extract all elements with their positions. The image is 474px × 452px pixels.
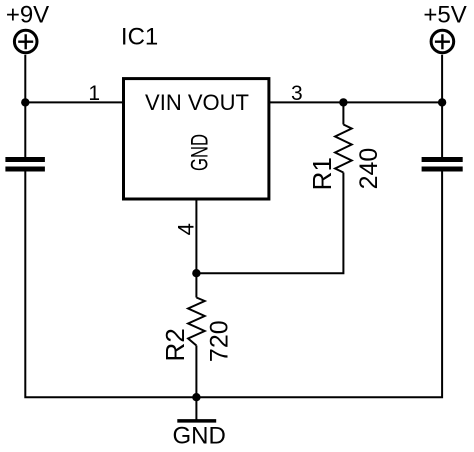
svg-text:R1: R1 [307, 157, 337, 190]
svg-text:1: 1 [88, 82, 100, 105]
svg-text:GND: GND [173, 423, 226, 450]
svg-text:4: 4 [173, 223, 198, 235]
svg-text:GND: GND [187, 134, 214, 171]
svg-text:IC1: IC1 [121, 23, 158, 50]
svg-text:+9V: +9V [6, 2, 49, 29]
svg-text:R2: R2 [160, 328, 190, 361]
svg-text:VIN VOUT: VIN VOUT [145, 90, 249, 115]
svg-text:+5V: +5V [423, 2, 466, 29]
svg-text:720: 720 [206, 320, 234, 362]
svg-text:3: 3 [291, 82, 303, 105]
svg-text:240: 240 [355, 148, 383, 190]
